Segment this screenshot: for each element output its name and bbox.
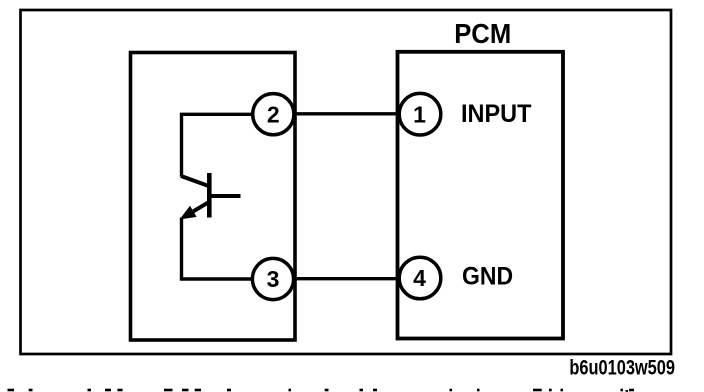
component box (switch side) [131,53,296,341]
pin 4 [399,257,441,299]
svg-text:3: 3 [267,266,280,292]
svg-text:2: 2 [267,101,280,127]
transistor emitter arrowhead [180,206,197,220]
cropped caption text tops [8,389,635,392]
transistor emitter slant [188,202,209,214]
wire from transistor emitter to terminal 3 [182,218,254,280]
transistor base bar [207,173,212,218]
transistor base lead [209,194,240,198]
terminal 2 [253,94,294,135]
PCM module box [398,52,564,339]
svg-text:1: 1 [413,101,426,127]
svg-text:PCM: PCM [454,18,511,49]
wire terminal 2 to pin 1 [292,112,400,115]
svg-text:4: 4 [413,265,426,291]
transistor collector slant [181,176,209,186]
svg-text:INPUT: INPUT [461,100,532,128]
terminal 3 [252,258,293,299]
svg-text:b6u0103w509: b6u0103w509 [569,356,675,379]
wire from terminal 2 to transistor collector [182,114,254,176]
transistor Q1 [180,173,241,220]
wire terminal 3 to pin 4 [292,277,400,280]
svg-text:GND: GND [462,263,513,291]
pin 1 [399,93,441,135]
